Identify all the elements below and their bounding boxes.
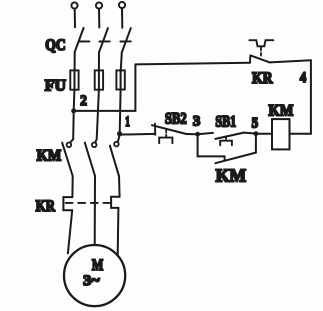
svg-text:3~: 3~ <box>83 273 99 289</box>
wire element1 to motor <box>68 210 72 253</box>
wire node 2 to riser <box>74 110 136 112</box>
wire node 1 to SB2 <box>120 133 155 136</box>
wire rail to coil <box>290 133 311 135</box>
terminal L2 <box>96 2 102 8</box>
SB1 actuator stem dashed <box>225 137 227 141</box>
svg-text:1: 1 <box>125 114 130 130</box>
switch QC pole 3 blade <box>122 28 131 52</box>
pushbutton SB1 (NO) left wire <box>198 133 213 134</box>
svg-text:5: 5 <box>252 115 259 131</box>
wire element3 to motor <box>117 208 120 255</box>
aux contact fixed tick <box>224 156 226 159</box>
wire FU1 to node 2 and down <box>70 90 74 143</box>
wire node 3 down (aux branch) <box>197 134 199 156</box>
wire coil to node 5 <box>256 133 272 135</box>
coil KM <box>272 119 290 149</box>
wire KR to right rail <box>270 60 311 62</box>
relay contact KR blade <box>251 56 270 63</box>
wire node 5 down to aux contact <box>255 134 257 153</box>
switch QC linkage dash 3 <box>120 40 130 42</box>
thermal relay KR heater element 1 <box>63 197 72 210</box>
contactor KM main contact 2 blade <box>85 143 95 176</box>
wire FU2 down <box>95 90 99 143</box>
switch QC pole 2 blade <box>99 28 108 52</box>
motor M circle <box>64 245 125 306</box>
SB2 actuator bracket <box>159 138 172 144</box>
wire FU3 to node 1 <box>119 90 122 134</box>
wire aux branch horizontal <box>198 155 225 157</box>
switch QC linkage dash 2 <box>99 40 109 42</box>
contactor KM main contact 2 circle <box>92 143 97 148</box>
wire QC to fuse FU3 <box>121 52 122 71</box>
svg-text:KR: KR <box>36 198 56 215</box>
node 3 junction dot <box>195 132 200 137</box>
pushbutton SB2 blade <box>152 125 186 134</box>
wire node1 into contact 3 <box>118 135 120 142</box>
svg-text:KR: KR <box>252 70 273 87</box>
node 1 junction dot <box>117 131 122 136</box>
SB2 actuator stem dashed <box>165 130 167 138</box>
wire L3 terminal to QC <box>121 8 123 28</box>
svg-text:KM: KM <box>216 166 246 186</box>
wire L2 terminal to QC <box>98 9 100 28</box>
svg-text:3: 3 <box>193 113 200 129</box>
contactor KM auxiliary contact blade <box>215 153 255 164</box>
SB1 actuator bracket <box>220 141 232 146</box>
svg-text:4: 4 <box>300 70 307 86</box>
svg-text:FU: FU <box>45 78 67 95</box>
fuse FU3 <box>116 70 124 89</box>
KR elements linkage dashed <box>66 202 110 204</box>
contactor KM main contact 3 blade <box>110 146 119 177</box>
svg-text:2: 2 <box>80 93 87 109</box>
fuse FU2 <box>95 70 103 89</box>
wire SB2 to node 3 <box>186 133 197 135</box>
contactor KM main contact 1 circle <box>67 143 72 148</box>
svg-text:SB1: SB1 <box>215 114 236 131</box>
wire QC to fuse FU2 <box>98 52 100 71</box>
switch QC linkage dash 1 <box>79 40 90 42</box>
KR release dashed stem <box>260 47 262 55</box>
wire contact2 to motor <box>94 176 96 245</box>
wire QC to fuse FU1 <box>74 52 76 71</box>
wire contact1 to KR element 1 <box>71 176 73 197</box>
wire contact3 to KR element 3 <box>118 176 121 197</box>
pushbutton SB2 (NC) fixed tick <box>154 124 156 135</box>
terminal L1 <box>71 2 77 8</box>
contactor KM main contact 1 blade <box>62 143 73 176</box>
terminal L3 <box>119 2 125 8</box>
KR thermal release symbol <box>249 40 273 46</box>
wire control top line <box>135 63 250 65</box>
wire right rail down <box>310 60 312 133</box>
svg-text:KM: KM <box>269 103 294 120</box>
svg-text:SB2: SB2 <box>165 111 187 128</box>
pushbutton SB1 blade <box>215 133 243 139</box>
contactor KM main contact 3 circle <box>114 142 119 147</box>
svg-text:KM: KM <box>37 147 62 164</box>
switch QC pole 1 blade <box>75 28 84 52</box>
node 5 junction dot <box>254 131 259 136</box>
svg-text:QC: QC <box>45 37 65 54</box>
fuse FU1 <box>70 70 78 89</box>
node 2 junction dot <box>71 108 76 113</box>
wire L1 terminal to QC <box>74 9 76 28</box>
wire riser up to control line <box>134 64 136 111</box>
wire SB1 to node 5 <box>244 133 256 134</box>
thermal relay KR heater element 3 <box>111 197 120 208</box>
svg-text:M: M <box>92 257 103 274</box>
relay contact KR (NC) fixed tick <box>249 55 251 63</box>
